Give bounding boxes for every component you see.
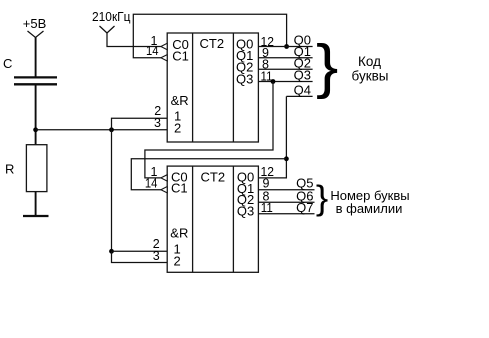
- wire 210kHz to U1 C0 pin 1: [107, 33, 161, 47]
- wire U1 Q0 output: [258, 46, 312, 48]
- wire to U2 reset pin 2: [112, 251, 168, 262]
- svg-text:буквы: буквы: [352, 68, 389, 83]
- svg-text:CT2: CT2: [201, 169, 226, 184]
- junction dot U1 Q0: [284, 44, 289, 49]
- wire +5V to capacitor C: [35, 37, 37, 77]
- svg-text:14: 14: [145, 176, 158, 190]
- wire resistor to ground: [35, 192, 37, 216]
- U2 dynamic input triangle C0: [161, 175, 167, 181]
- wire U2 Q1 output: [258, 189, 314, 191]
- svg-text:Q4: Q4: [294, 82, 311, 97]
- wire U1 Q3 to U2 C0: [145, 82, 273, 178]
- wire U1 Q0 feedback to C1: [133, 14, 286, 58]
- svg-text:2: 2: [174, 254, 181, 269]
- wire Q4 output stub: [286, 95, 312, 97]
- U1 dynamic input triangle C0: [161, 43, 167, 49]
- junction dot U1 Q3: [271, 79, 276, 84]
- wire U2 Q0 feedback to C1: [258, 96, 286, 177]
- wire U1 Q2 output: [258, 68, 312, 70]
- counter U1 box: [167, 33, 258, 142]
- svg-text:+5В: +5В: [23, 16, 47, 31]
- svg-text:Q3: Q3: [294, 68, 311, 83]
- wire reset bus up to U1 pin 1: [112, 118, 168, 130]
- wire reset bus down to U2: [111, 130, 113, 252]
- junction dot U2 reset bus: [109, 249, 114, 254]
- svg-text:}: }: [316, 179, 328, 218]
- svg-text:3: 3: [154, 116, 161, 130]
- svg-text:Q7: Q7: [296, 200, 313, 215]
- svg-text:C1: C1: [171, 181, 188, 196]
- svg-text:2: 2: [174, 120, 181, 135]
- svg-text:}: }: [316, 33, 338, 100]
- resistor R: [26, 145, 47, 192]
- wire U2 Q2 output: [258, 201, 314, 203]
- U2 dynamic input triangle C1: [161, 187, 167, 193]
- svg-text:14: 14: [146, 44, 159, 58]
- svg-text:в фамилии: в фамилии: [336, 201, 403, 216]
- svg-text:Код: Код: [358, 54, 381, 69]
- wire U1 Q3 output: [258, 81, 312, 83]
- wire U2 feedback branch to C1: [131, 159, 286, 190]
- svg-text:Q3: Q3: [237, 204, 254, 219]
- U1 dynamic input triangle C1: [161, 55, 167, 61]
- junction dot U2 Q0 feedback: [284, 156, 289, 161]
- wire U1 Q1 output: [258, 57, 312, 59]
- node +5V terminal chevron: [28, 31, 44, 38]
- svg-text:CT2: CT2: [200, 36, 225, 51]
- svg-text:&R: &R: [170, 226, 188, 241]
- svg-text:C: C: [3, 56, 12, 71]
- wire capacitor to resistor R: [35, 84, 37, 144]
- junction dot reset bus: [109, 127, 114, 132]
- svg-text:Q3: Q3: [236, 72, 253, 87]
- wire RC node to U1 reset pin 2: [36, 129, 168, 131]
- junction dot RC node: [33, 127, 38, 132]
- node 210kHz chevron: [100, 26, 115, 33]
- svg-text:R: R: [5, 162, 14, 177]
- svg-text:&R: &R: [171, 93, 189, 108]
- svg-text:C1: C1: [172, 48, 189, 63]
- wire U2 Q3 output: [258, 213, 314, 215]
- counter U2 box: [167, 166, 258, 272]
- svg-text:3: 3: [153, 249, 160, 263]
- wire to U2 reset pin 1: [112, 250, 168, 252]
- ground: [23, 215, 49, 217]
- svg-text:210кГц: 210кГц: [92, 10, 131, 24]
- capacitor C: [14, 77, 57, 84]
